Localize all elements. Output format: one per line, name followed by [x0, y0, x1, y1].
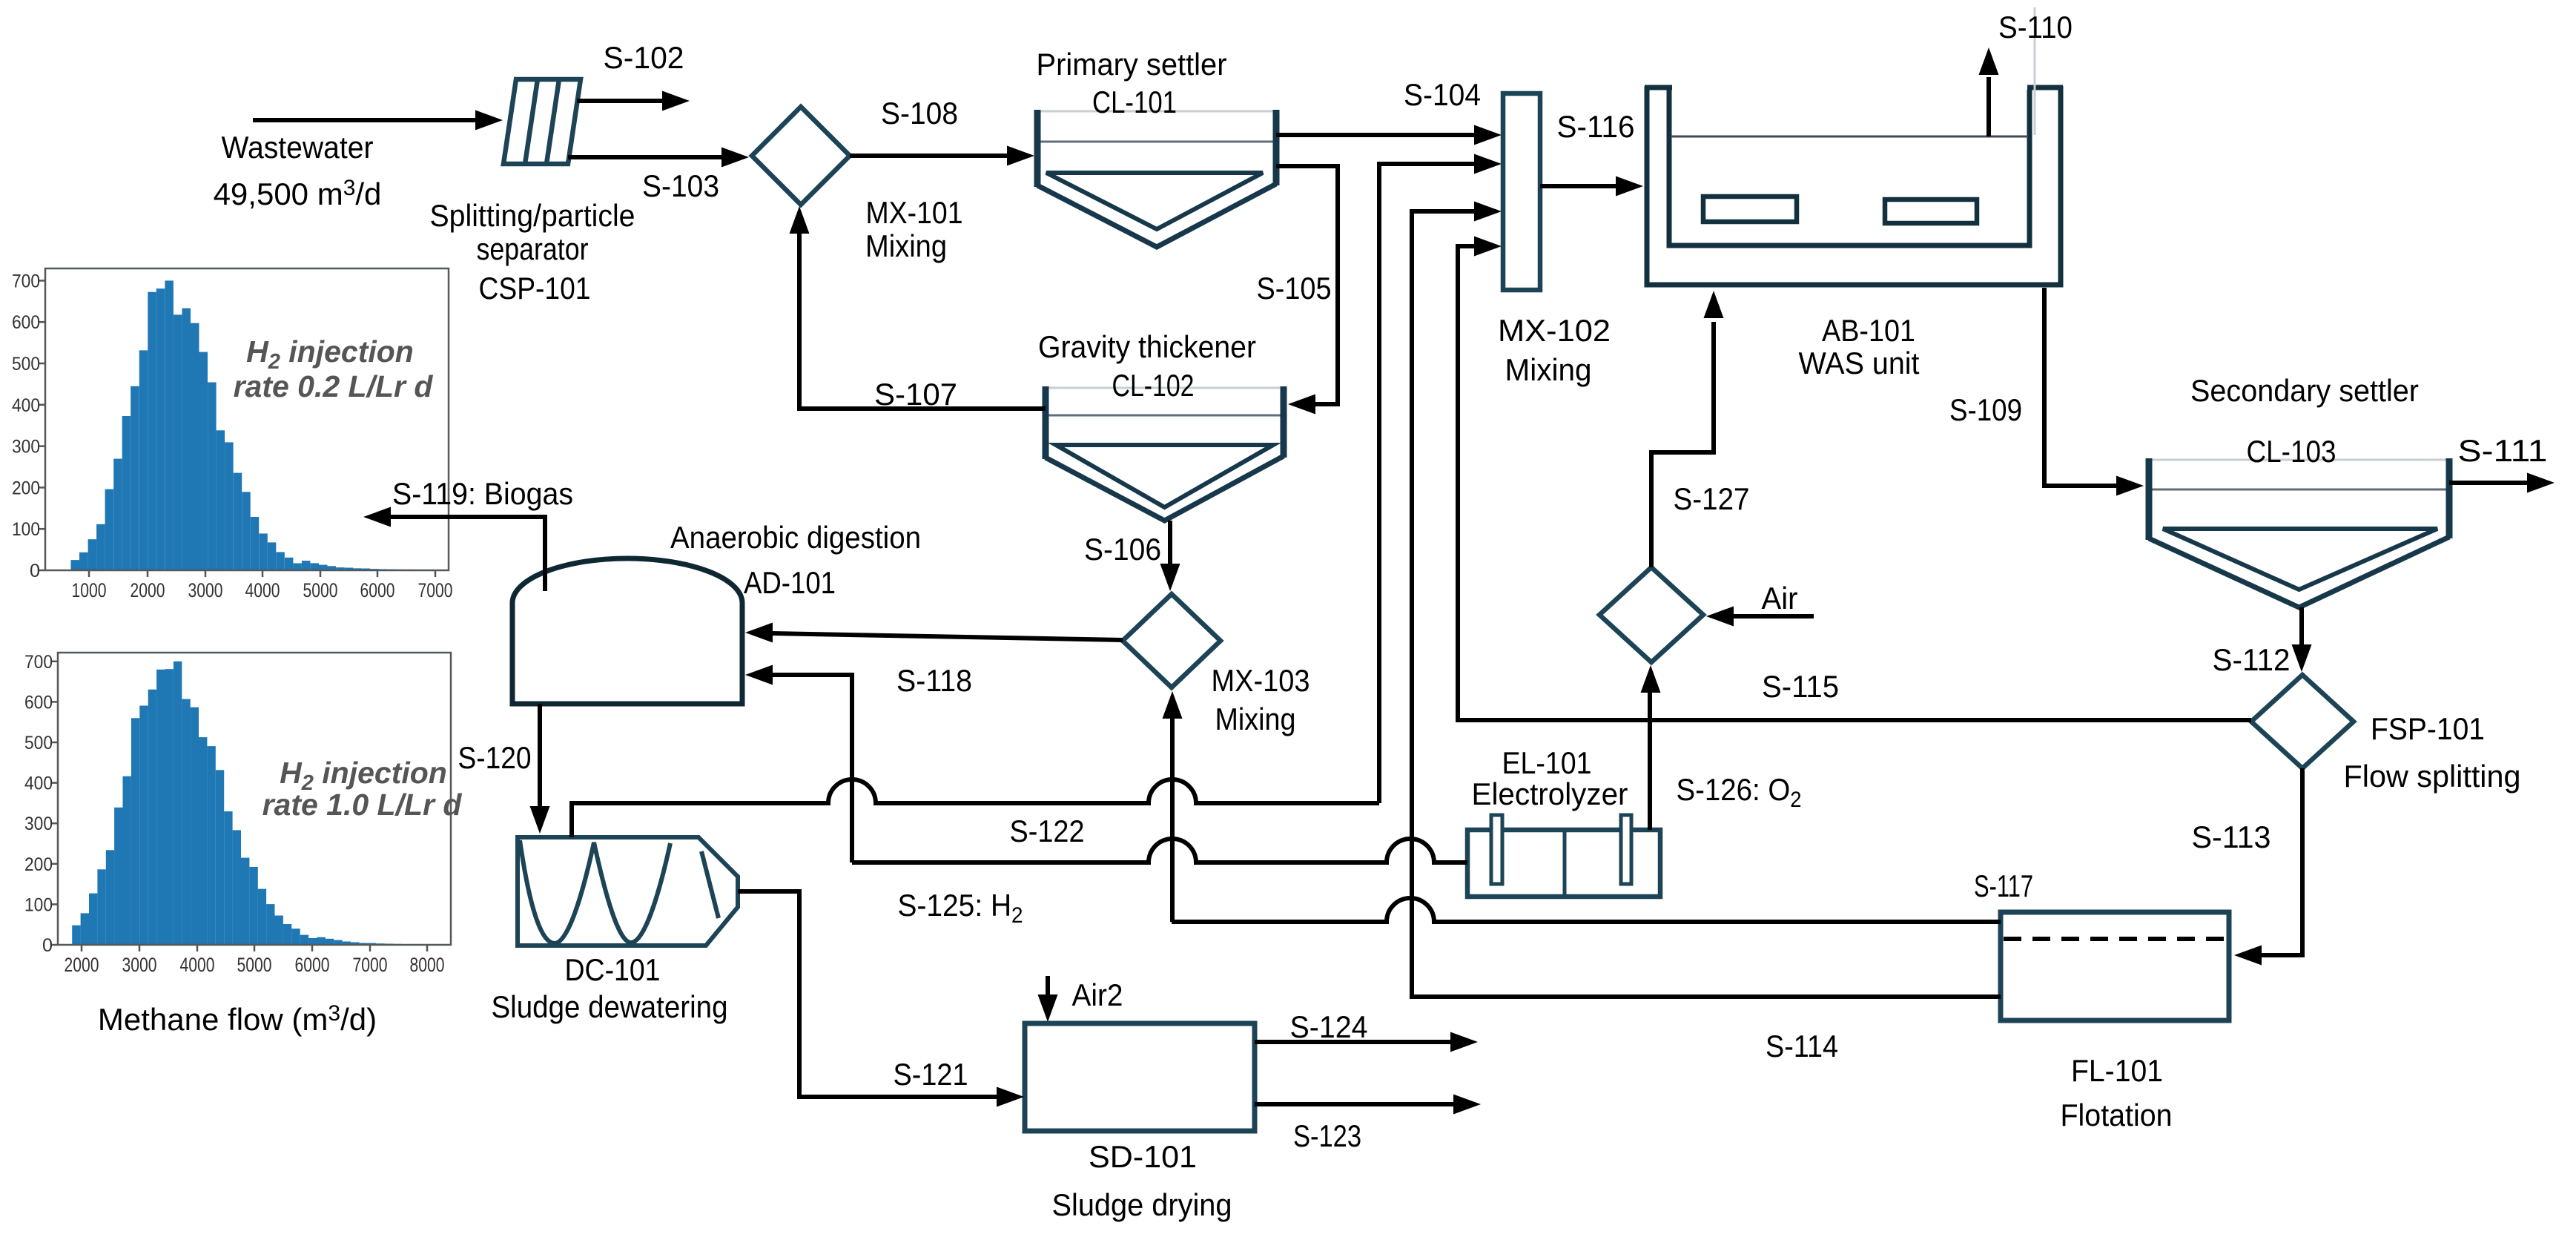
svg-text:MX-102: MX-102 [1498, 313, 1611, 348]
svg-text:FSP-101: FSP-101 [2371, 711, 2485, 746]
arrowhead Air2 [1038, 994, 1058, 1022]
unit EL-101 electrolyzer [1467, 815, 1660, 897]
svg-text:49,500 m3/d: 49,500 m3/d [214, 176, 382, 211]
svg-text:MX-103: MX-103 [1212, 663, 1310, 698]
svg-text:0: 0 [42, 935, 53, 956]
svg-text:AD-101: AD-101 [744, 565, 836, 600]
unit FL-101 flotation [2001, 912, 2229, 1020]
arrowhead S-102 [662, 91, 690, 111]
svg-text:S-122: S-122 [1010, 814, 1085, 848]
arrowhead S-119 [363, 507, 391, 527]
wire S-123 [1255, 1102, 1454, 1106]
arrowhead S-104 [1474, 125, 1502, 145]
svg-text:S-124: S-124 [1290, 1009, 1368, 1044]
unit DC-101 sludge dewatering [518, 837, 738, 946]
wire S-115 from FSP-101 to MX-102 [1458, 246, 2251, 720]
svg-text:S-118: S-118 [896, 663, 972, 698]
svg-text:S-110: S-110 [1998, 10, 2073, 44]
svg-text:300: 300 [24, 814, 53, 834]
svg-text:S-109: S-109 [1949, 392, 2022, 427]
clarifier CL-102 gravity thickener [1046, 387, 1284, 389]
arrowhead wastewater [475, 110, 503, 131]
svg-text:100: 100 [12, 519, 40, 540]
wire S-122 from DC-101 with bridges [572, 779, 1379, 837]
arrowhead S-120 [530, 806, 550, 834]
svg-text:AB-101: AB-101 [1822, 313, 1915, 348]
wire S-119 biogas [390, 517, 545, 591]
svg-text:Mixing: Mixing [865, 228, 947, 263]
arrowhead S-105 [1288, 395, 1315, 415]
air mixer diamond [1599, 567, 1703, 662]
arrowhead S-126 [1641, 665, 1661, 693]
svg-text:Mixing: Mixing [1215, 702, 1296, 736]
wire S-108 [850, 154, 1008, 158]
wire S-117 riser to MX-103 [1170, 718, 1175, 922]
svg-text:S-108: S-108 [881, 96, 958, 131]
svg-text:EL-101: EL-101 [1502, 745, 1592, 780]
arrowhead S-112 [2292, 644, 2312, 672]
wire Air2 [1046, 976, 1050, 995]
svg-text:CSP-101: CSP-101 [479, 271, 591, 306]
svg-text:FL-101: FL-101 [2071, 1053, 2163, 1088]
wire air feed [1733, 614, 1814, 618]
splitter FSP-101 [2251, 675, 2354, 768]
svg-text:100: 100 [24, 894, 53, 915]
svg-text:CL-101: CL-101 [1092, 85, 1177, 119]
arrowhead S-110 [1979, 47, 1999, 75]
svg-text:S-117: S-117 [1974, 868, 2033, 903]
histogram H2 rate 1.0 [72, 926, 80, 945]
svg-text:0: 0 [30, 561, 40, 581]
svg-text:CL-102: CL-102 [1112, 368, 1195, 403]
svg-text:SD-101: SD-101 [1089, 1139, 1197, 1174]
svg-text:Anaerobic digestion: Anaerobic digestion [670, 520, 921, 555]
unit CSP-101 splitting/particle separator [503, 79, 581, 164]
wire S-125 riser into AD-101 [772, 675, 852, 862]
wire S-113 [2261, 768, 2302, 955]
arrowhead S-107 [790, 206, 810, 234]
svg-text:S-104: S-104 [1404, 77, 1481, 112]
arrowhead S-116 [1616, 177, 1643, 197]
arrowhead S-111 [2527, 473, 2554, 493]
svg-text:S-114: S-114 [1766, 1029, 1838, 1063]
arrowhead S-106 [1160, 564, 1180, 591]
svg-text:S-125: H2: S-125: H2 [898, 888, 1023, 928]
svg-text:Flow splitting: Flow splitting [2344, 759, 2521, 794]
svg-text:DC-101: DC-101 [565, 952, 661, 987]
arrowhead S-123 [1453, 1095, 1481, 1115]
unit AB-101 WAS aeration basin [1645, 7, 2063, 285]
svg-text:200: 200 [24, 854, 53, 875]
wire S-110 [1987, 77, 1991, 136]
svg-text:rate 0.2 L/Lr d: rate 0.2 L/Lr d [234, 369, 434, 403]
wire S-114 from FL-101 to MX-102 [1412, 211, 2001, 997]
wire S-120 [538, 704, 542, 807]
mixer MX-103 [1123, 594, 1221, 687]
svg-text:500: 500 [12, 354, 40, 375]
svg-text:Wastewater: Wastewater [222, 130, 374, 165]
unit SD-101 sludge drying [1025, 1023, 1255, 1131]
svg-text:Air: Air [1762, 581, 1798, 616]
svg-text:S-127: S-127 [1674, 481, 1750, 516]
wire S-111 [2449, 481, 2528, 485]
wire S-105 settler underflow to thickener [1276, 166, 1338, 404]
unit AD-101 anaerobic digester [512, 558, 742, 704]
arrowhead S-125 into AD [745, 665, 773, 685]
svg-text:S-107: S-107 [874, 377, 957, 412]
arrowhead S-108 [1007, 146, 1034, 166]
arrowhead S-115 [1474, 237, 1502, 257]
histogram H2 rate 0.2 [71, 560, 80, 570]
clarifier CL-103 secondary settler [2149, 459, 2449, 461]
svg-text:Gravity thickener: Gravity thickener [1038, 329, 1256, 364]
svg-text:S-116: S-116 [1557, 109, 1635, 144]
svg-text:S-115: S-115 [1762, 669, 1839, 704]
svg-text:S-120: S-120 [458, 740, 532, 775]
svg-text:2000: 2000 [131, 579, 165, 601]
arrowhead air [1706, 607, 1734, 627]
svg-text:4000: 4000 [180, 954, 215, 976]
svg-text:400: 400 [24, 773, 53, 794]
arrowhead S-121 [997, 1087, 1024, 1107]
svg-text:6000: 6000 [360, 579, 395, 601]
wire S-117 from FL-101 with bridge [1172, 898, 2001, 922]
svg-text:Electrolyzer: Electrolyzer [1472, 776, 1628, 811]
svg-text:S-123: S-123 [1293, 1118, 1361, 1153]
svg-text:8000: 8000 [410, 954, 445, 976]
wire S-124 [1255, 1040, 1451, 1044]
wire S-106 [1168, 521, 1172, 564]
arrowhead S-103 [721, 148, 749, 168]
svg-text:S-105: S-105 [1257, 271, 1332, 306]
svg-text:S-103: S-103 [642, 168, 719, 203]
svg-text:3000: 3000 [188, 579, 223, 601]
svg-text:Sludge drying: Sludge drying [1052, 1187, 1232, 1222]
svg-text:S-111: S-111 [2458, 433, 2548, 468]
svg-text:3000: 3000 [122, 954, 157, 976]
clarifier CL-101 primary settler [1037, 110, 1276, 113]
wire S-125 H2 from electrolyzer with bridges [852, 839, 1467, 862]
wire S-122 riser to MX-102 [1379, 164, 1475, 803]
wire S-102 [577, 99, 663, 103]
wire S-104 [1276, 133, 1475, 137]
svg-text:5000: 5000 [237, 954, 272, 976]
wire S-127 to AB-101 [1651, 322, 1714, 567]
svg-text:Air2: Air2 [1072, 977, 1123, 1012]
arrowhead S-114 [1474, 202, 1502, 222]
mixer MX-101 [752, 107, 850, 205]
wire S-112 [2299, 607, 2304, 645]
svg-text:S-119: Biogas: S-119: Biogas [392, 476, 573, 511]
arrowhead S-113 [2234, 946, 2262, 966]
svg-text:Splitting/particle: Splitting/particle [430, 198, 635, 233]
svg-text:7000: 7000 [418, 579, 453, 601]
wire S-121 DC-101 to SD-101 [738, 891, 997, 1097]
wire S-118 MX-103 to AD-101 [772, 633, 1123, 640]
svg-text:300: 300 [12, 437, 40, 458]
svg-text:500: 500 [24, 733, 53, 753]
svg-text:Secondary settler: Secondary settler [2190, 373, 2419, 408]
svg-text:S-121: S-121 [894, 1057, 968, 1092]
svg-text:400: 400 [12, 395, 40, 416]
svg-text:S-113: S-113 [2192, 819, 2271, 854]
svg-text:700: 700 [24, 652, 53, 673]
svg-text:Mixing: Mixing [1505, 352, 1592, 387]
svg-text:700: 700 [12, 271, 40, 291]
svg-text:200: 200 [12, 478, 40, 498]
svg-text:Primary settler: Primary settler [1037, 47, 1227, 82]
svg-text:600: 600 [24, 692, 53, 713]
svg-text:separator: separator [477, 231, 589, 266]
svg-text:S-112: S-112 [2213, 642, 2291, 677]
svg-text:WAS unit: WAS unit [1799, 346, 1920, 380]
wire S-116 [1540, 184, 1616, 188]
svg-text:4000: 4000 [245, 579, 280, 601]
mixer MX-102 [1503, 93, 1540, 290]
svg-text:S-106: S-106 [1084, 532, 1161, 567]
svg-text:7000: 7000 [353, 954, 388, 976]
svg-text:5000: 5000 [303, 579, 338, 601]
svg-text:CL-103: CL-103 [2247, 434, 2336, 469]
arrowhead S-124 [1450, 1032, 1478, 1052]
wire S-103 [568, 155, 722, 159]
arrowhead S-127 [1704, 291, 1724, 318]
svg-text:MX-101: MX-101 [866, 195, 963, 230]
svg-text:S-102: S-102 [604, 40, 684, 75]
svg-text:600: 600 [12, 312, 40, 333]
svg-text:rate 1.0 L/Lr d: rate 1.0 L/Lr d [262, 788, 463, 822]
wire S-126 O2 from electrolyzer [1648, 692, 1652, 830]
wire S-109 [2044, 288, 2117, 486]
arrowhead S-122 [1474, 154, 1502, 174]
svg-text:6000: 6000 [295, 954, 330, 976]
arrowhead S-109 [2116, 476, 2144, 496]
svg-text:1000: 1000 [72, 579, 107, 601]
wire wastewater feed [253, 118, 476, 122]
arrowhead S-118 [745, 623, 773, 643]
svg-text:2000: 2000 [65, 954, 99, 976]
svg-text:S-126: O2: S-126: O2 [1677, 772, 1802, 812]
svg-text:Sludge dewatering: Sludge dewatering [492, 989, 728, 1024]
arrowhead into MX-103 [1163, 691, 1183, 719]
wire S-107 thickener overflow to MX-101 [799, 233, 1046, 409]
svg-text:Flotation: Flotation [2061, 1098, 2173, 1132]
